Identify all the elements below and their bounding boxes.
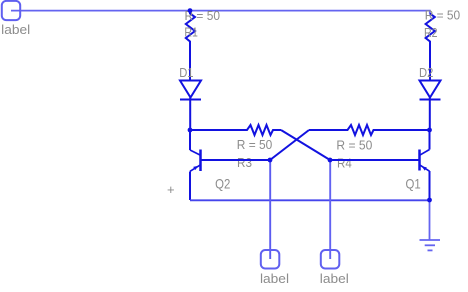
wire diagonal A (R3 to node4) <box>281 130 330 160</box>
svg-text:D2: D2 <box>419 66 433 80</box>
junction dot node3 <box>268 158 273 163</box>
svg-text:R2: R2 <box>424 26 438 40</box>
svg-text:R = 50: R = 50 <box>237 138 273 152</box>
junction dot node5 <box>427 198 432 203</box>
port P3 <box>321 250 340 269</box>
svg-text:R = 50: R = 50 <box>425 8 461 22</box>
diode D2 <box>420 81 441 131</box>
wire drop right <box>329 160 331 259</box>
svg-text:label: label <box>260 272 289 286</box>
junction dot node2 <box>427 128 432 133</box>
rail wire bottom <box>190 199 430 201</box>
ground symbol <box>420 240 441 250</box>
transistor Q2 <box>190 130 270 200</box>
resistor R3 <box>190 125 281 135</box>
wire diagonal B (node3 to R4) <box>270 130 309 160</box>
svg-text:R3: R3 <box>237 156 252 170</box>
resistor R2 <box>426 14 435 81</box>
junction dot top <box>188 8 193 13</box>
resistor R4 <box>309 125 430 135</box>
junction dot node1 <box>188 128 193 133</box>
svg-text:label: label <box>1 23 30 37</box>
port P1 <box>2 1 20 20</box>
svg-text:R1: R1 <box>184 26 198 40</box>
svg-text:R = 50: R = 50 <box>336 139 372 153</box>
svg-text:Q2: Q2 <box>215 175 230 191</box>
port P2 <box>261 250 280 269</box>
wire top net VCC <box>11 11 430 14</box>
junction dot node4 <box>328 158 333 163</box>
svg-text:Q1: Q1 <box>406 175 421 191</box>
svg-text:R4: R4 <box>337 157 352 171</box>
diode D1 <box>180 81 201 131</box>
wire drop left <box>269 160 271 259</box>
base wire node4 to Q1 <box>330 159 420 161</box>
svg-text:+: + <box>167 182 175 197</box>
ground wire <box>429 200 431 240</box>
svg-text:label: label <box>320 272 349 286</box>
svg-text:D1: D1 <box>179 66 193 80</box>
resistor R1 <box>186 11 195 81</box>
transistor Q1 <box>420 130 430 200</box>
